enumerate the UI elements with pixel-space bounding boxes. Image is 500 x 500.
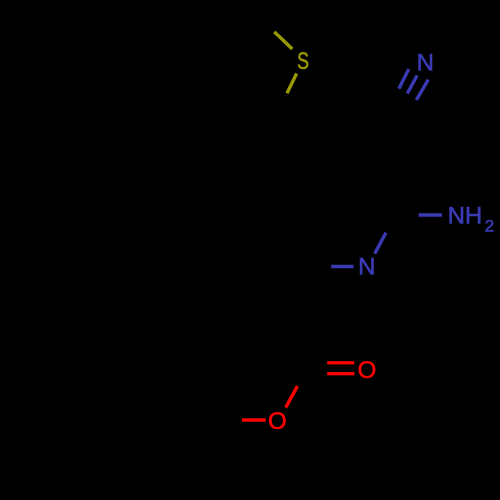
triple bond line 3 (right)	[416, 80, 428, 100]
svg-text:S: S	[297, 48, 309, 74]
bond C2 to NH2 (nitrogen half)	[419, 213, 443, 216]
ring bond N to C6 (nitrogen half, left)	[331, 265, 353, 268]
ring bond N to C2 (nitrogen half, upper right)	[375, 233, 386, 254]
svg-text:N: N	[358, 254, 375, 281]
bond C(=O)-O (oxygen half, diagonal)	[286, 386, 298, 408]
C=O double bond upper line (oxygen half)	[327, 361, 354, 364]
triple bond line 1 (left)	[399, 69, 409, 89]
bond S to C (lower-left half, sulfur side)	[287, 74, 297, 94]
bond S to C (upper-left half, sulfur side)	[274, 32, 292, 49]
bond O-CH3 (oxygen half)	[242, 418, 266, 421]
svg-text:NH: NH	[448, 203, 483, 230]
C=O double bond lower line (oxygen half)	[327, 372, 354, 375]
svg-text:O: O	[358, 357, 377, 384]
svg-text:N: N	[417, 49, 434, 76]
svg-text:2: 2	[485, 217, 494, 236]
triple bond line 2 (center)	[407, 75, 417, 93]
svg-text:O: O	[268, 408, 287, 435]
